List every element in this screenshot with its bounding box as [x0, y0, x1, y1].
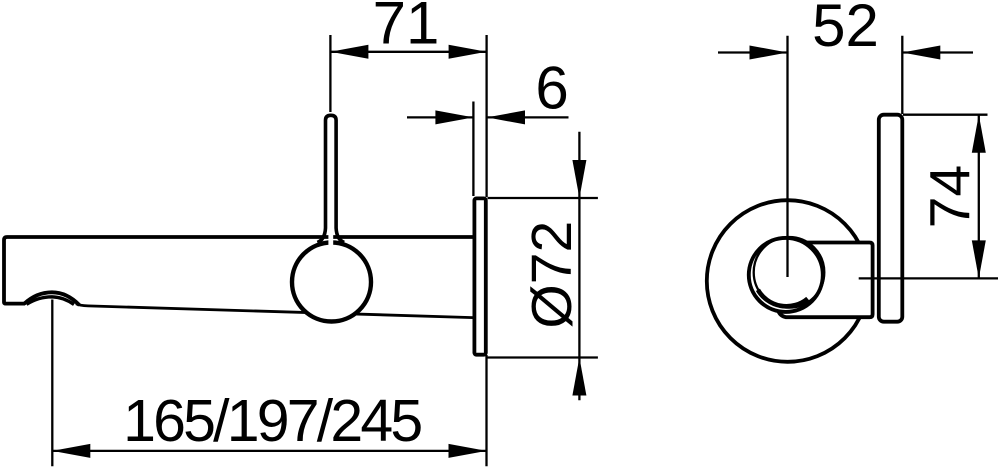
svg-text:6: 6: [535, 55, 568, 122]
dim 6 right arrow: [487, 110, 525, 124]
dim 74 dimension line: [978, 115, 980, 279]
lever bar (front view): [879, 115, 903, 322]
dim O72 top arrow: [572, 160, 586, 198]
lever side view outline: [317, 115, 344, 242]
dim 71 left arrow: [330, 45, 368, 59]
handle hub (front view): [778, 243, 873, 318]
dim 71 / 6 right extension line: [485, 35, 487, 197]
dim 52 left arrow: [750, 46, 788, 60]
bottom crescent arc c3: [758, 290, 808, 307]
svg-text:74: 74: [919, 165, 983, 228]
escutcheon circle (front view): [707, 200, 869, 362]
spout aerator bump inner lip: [27, 297, 75, 305]
dim 165/197/245 dimension line: [52, 450, 486, 452]
dim 52 dimension line left: [718, 51, 788, 53]
dim O72 dimension line: [578, 132, 580, 401]
spout aerator bump outer: [24, 292, 80, 305]
dim 74 top arrow: [972, 115, 986, 153]
dim 71 right arrow: [449, 45, 487, 59]
cartridge cover circle c1: [749, 238, 823, 312]
svg-text:52: 52: [812, 0, 879, 59]
dim 6 line left part: [407, 116, 473, 118]
dim 74 bottom extension line: [859, 277, 998, 279]
dim 71 left extension line: [329, 35, 331, 112]
dim 74 top extension line: [903, 114, 988, 116]
dim 71 dimension line: [330, 51, 486, 53]
dim 165 left extension line: [51, 300, 53, 467]
lever channel fill: [328, 116, 333, 247]
cartridge inner offset circle c2: [754, 237, 825, 308]
dim 6 left arrow: [435, 110, 473, 124]
dim O72 top extension line: [488, 197, 598, 199]
svg-text:165/197/245: 165/197/245: [123, 388, 421, 454]
dim 52 right extension line: [901, 36, 903, 114]
svg-text:71: 71: [373, 0, 440, 56]
dim 165 left arrow: [52, 444, 90, 458]
wall plate (side view): [474, 198, 485, 354]
dim 6 line right part: [487, 116, 569, 118]
dim 74 bottom arrow: [972, 240, 986, 278]
dim O72 bottom extension line: [488, 356, 598, 358]
valve body circle (side view): [292, 243, 371, 322]
dim 6 left extension line: [472, 102, 474, 197]
svg-text:Ø72: Ø72: [520, 221, 584, 329]
dim 165 right extension line: [485, 355, 487, 466]
dim 52 centerline extension: [786, 36, 788, 277]
dim 52 right arrow: [902, 46, 940, 60]
dim 52 dimension line right: [902, 51, 973, 53]
dim 165 right arrow: [449, 444, 487, 458]
dim O72 bottom arrow: [572, 358, 586, 396]
spout top edge: [4, 237, 473, 304]
spout underside slant line: [76, 304, 473, 318]
